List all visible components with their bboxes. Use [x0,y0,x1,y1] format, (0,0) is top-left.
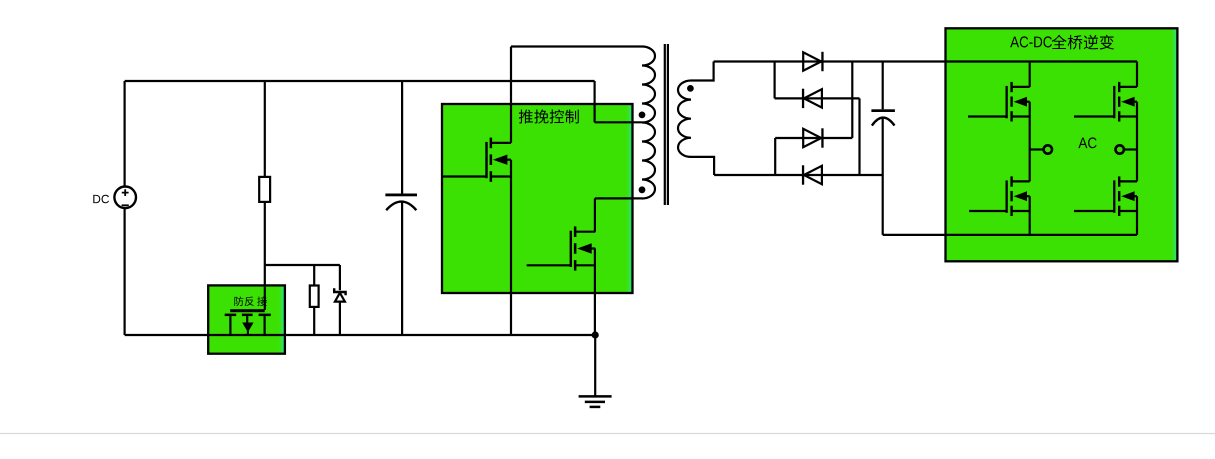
ground symbol [579,395,612,398]
wire center tap feed down [593,81,595,122]
zener D5 triangle [335,293,345,302]
wire D3/D4 tie vertical [774,138,776,175]
block push-pull control (推挽控制) green box [442,104,633,293]
wire Q1 source to ground rail [510,160,512,335]
capacitor C2 wire top [882,62,884,110]
wire D3 cathode to positive rail [851,62,853,139]
capacitor C2 wire bottom [882,118,884,235]
capacitor C2 top plate [871,109,895,112]
wire Q2 source to ground node [594,249,596,336]
transformer T1 secondary dot [687,85,694,92]
wire Q1 gate lead to box edge [442,175,486,177]
wire secondary top to D1 row [691,62,714,81]
wire Q1 drain vertical [510,47,512,143]
mosfet Q2 (push-pull lower) [570,226,596,270]
wire bridge right leg lower [1136,196,1138,235]
mosfet Q3 (anti-reverse) gate bar [230,309,265,312]
resistor R2 wire bottom [313,307,315,335]
wire branch to R2 and zener [265,264,340,266]
capacitor C1 bottom curved plate [386,202,416,211]
wire M1 gate stub [968,115,1006,117]
label AC-DC (latin part of title) [1010,36,1052,47]
wire secondary bottom staircase [691,157,714,175]
capacitor C2 bottom curved plate [872,118,895,126]
resistor R2 wire top [313,265,315,286]
wire D2 to D4 vertical [858,98,860,175]
transformer T1 primary dot lower [639,186,646,193]
mosfet M2 (bridge upper right) [1113,82,1137,122]
wire bridge left leg middle [1029,102,1031,182]
mosfet M4 (bridge lower right) [1113,176,1137,216]
wire bridge left leg lower [1029,196,1031,235]
wire positive rail (D1 row through bridge top) [714,60,1137,62]
wire Q2 gate stub [527,264,570,266]
mosfet Q3 drain lead down [264,316,266,335]
label 全桥逆变 [1052,35,1114,50]
wire transformer top end to Q1 drain [511,45,642,47]
separator line bottom [0,433,1215,435]
transformer T1 secondary winding [678,81,691,157]
block anti-reverse (防反接) green box [208,285,285,353]
resistor R2 body [310,286,319,307]
capacitor C1 wire top [401,81,403,194]
diode D1 (points right) [803,52,821,70]
label DC source [93,195,109,203]
resistor R1 vertical wire top [264,81,266,177]
wire M4 gate stub [1074,210,1114,212]
mosfet Q3 body arrow (down) [246,316,248,322]
zener D5 cathode bar with bent ends [334,288,345,295]
mosfet M3 (bridge lower left) [1006,176,1030,216]
label 防反接 [234,297,267,307]
diode D4 (points left) [804,166,822,184]
zener D5 wire bottom [339,302,341,335]
wire D2 row [775,97,860,99]
capacitor C1 top plate [385,194,417,197]
wire DC- vertical [123,208,125,335]
wire bottom rail [125,334,596,336]
wire center tap horizontal to primary [595,121,642,123]
wire M3 gate stub [969,210,1006,212]
mosfet Q1 (push-pull upper) [485,138,511,182]
label 推挽控制 [519,109,579,123]
block AC-DC full-bridge inverter green box [946,28,1178,261]
resistor R1 body [259,177,270,202]
wire Q2 drain horizontal to primary bottom [595,197,642,199]
terminal AC right circle [1116,145,1124,153]
wire AC stub left [1030,148,1044,150]
wire top rail from DC+ to center-tap feed [125,80,595,82]
transformer T1 core lines [665,44,668,205]
zener D5 wire top [339,265,341,290]
junction node ground dot [592,331,599,338]
V1 minus sign [122,204,129,206]
diode D2 (points left) [804,89,822,107]
wire bridge right leg upper [1136,62,1138,87]
wire AC stub right [1124,148,1137,150]
wire to ground symbol [594,335,596,396]
mosfet Q3 source lead down [229,316,231,335]
mosfet M1 (bridge upper left) [1006,82,1030,122]
wire D4 row [714,174,883,176]
wire negative rail into bridge [883,234,1137,236]
diode D3 (points right) [803,129,821,147]
wire bridge left leg upper [1029,62,1031,87]
transformer T1 primary dot upper [639,112,646,119]
capacitor C1 wire bottom [401,203,403,336]
transformer T1 primary winding [642,47,655,199]
wire R1 to gate of reverse-protection mosfet [264,202,266,310]
wire D1/D2 anode tie vertical [773,62,775,99]
label AC output [1078,137,1096,148]
terminal AC left circle [1044,145,1052,153]
wire M2 gate stub [1074,115,1114,117]
source V1 DC circle [114,187,136,209]
wire DC+ vertical [123,81,125,187]
wire bridge right leg middle [1136,102,1138,182]
wire D3 row [775,137,852,139]
V1 plus sign [122,189,129,196]
mosfet Q3 channel segments [225,314,237,317]
wire Q2 drain vertical [594,198,596,231]
